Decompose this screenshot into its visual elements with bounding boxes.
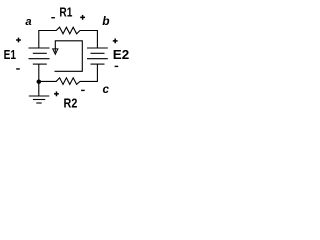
svg-text:E1: E1 [4,48,16,62]
svg-text:c: c [103,83,110,96]
svg-text:b: b [102,14,109,28]
svg-text:R2: R2 [64,97,78,111]
svg-text:a: a [25,16,31,28]
svg-text:R1: R1 [59,6,72,20]
svg-text:E2: E2 [113,48,129,62]
